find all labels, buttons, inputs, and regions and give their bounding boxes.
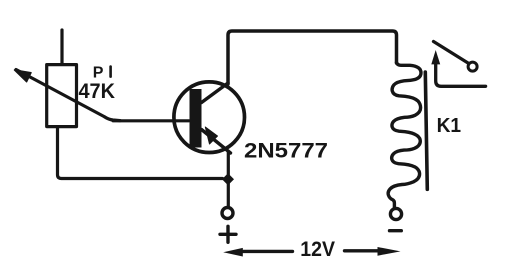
wire: collector up and top rail to relay coil — [228, 31, 397, 84]
wire: potentiometer wiper diagonal — [16, 70, 120, 121]
relay armature wire with up arrow — [436, 62, 486, 86]
svg-text:2N5777: 2N5777 — [244, 138, 328, 162]
relay core line — [425, 72, 427, 189]
arrow left of 12V — [241, 250, 293, 253]
node junction dot — [222, 173, 234, 185]
switch lever — [434, 42, 469, 64]
transistor Q1 collector stroke — [202, 83, 229, 103]
svg-text:47K: 47K — [79, 79, 116, 103]
wire: potentiometer P1 bottom lead — [58, 127, 223, 179]
relay K1 coil — [388, 63, 421, 208]
transistor Q1 emitter stroke — [202, 130, 231, 154]
wire: emitter down to node — [227, 152, 230, 206]
wire: wiper to transistor base — [113, 119, 189, 122]
potentiometer P1 body — [47, 65, 77, 127]
svg-text:12V: 12V — [300, 238, 335, 261]
label plus sign — [220, 226, 236, 242]
terminal circle - — [390, 208, 401, 219]
switch contact circle — [468, 62, 477, 71]
arrow right of 12V — [345, 249, 379, 252]
arrowhead: potentiometer wiper — [15, 70, 32, 82]
svg-text:K1: K1 — [437, 115, 462, 137]
terminal circle + — [222, 208, 233, 219]
transistor Q1 circle — [174, 82, 245, 153]
label minus sign — [390, 229, 402, 232]
wire: potentiometer P1 top lead — [60, 30, 63, 65]
arrowhead: transistor emitter — [205, 127, 217, 144]
transistor Q1 base bar — [190, 89, 202, 148]
